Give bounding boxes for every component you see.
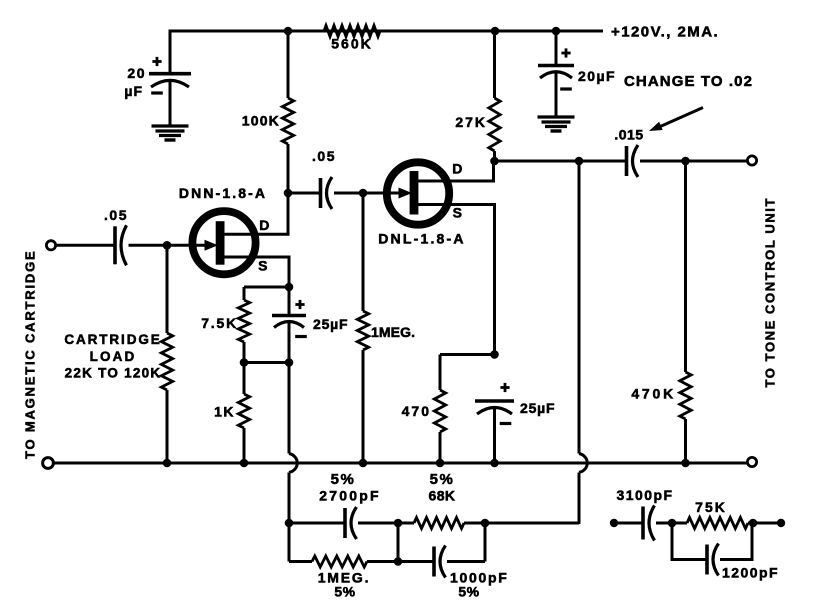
wire S-node to 7.5K (244, 286, 289, 289)
wire 470 vertical (439, 355, 442, 464)
svg-text:CARTRIDGE: CARTRIDGE (64, 332, 161, 347)
wire interstage cap left (288, 192, 321, 195)
svg-text:5%: 5% (334, 584, 355, 600)
label cartridge load (64, 332, 161, 381)
svg-text:CHANGE TO .02: CHANGE TO .02 (624, 73, 753, 90)
wire input right (129, 244, 169, 247)
transistor Q1 channel bar (216, 221, 225, 265)
svg-text:2700pF: 2700pF (319, 488, 380, 504)
label to magnetic cartridge (23, 250, 38, 459)
node junction rail/470 (436, 459, 445, 468)
wire network top-left (289, 522, 345, 525)
ground symbol right (538, 117, 575, 131)
wire top supply rail (170, 30, 603, 33)
wire 25uF-1 hop over ground rail (289, 454, 297, 473)
node junction interstage tap (284, 189, 293, 198)
node junction rail/1K (240, 459, 249, 468)
polarity - 25uF first (295, 335, 307, 338)
svg-text:µF: µF (124, 83, 143, 99)
svg-text:27K: 27K (455, 114, 487, 130)
wire Q2 drain lead (416, 161, 494, 181)
node junction 25uF-1 mid (285, 358, 294, 367)
polarity - 20uF left (151, 91, 163, 94)
wire 25uF-2 bottom (493, 408, 496, 463)
wire interstage cap right (334, 192, 364, 195)
label 25uF second (520, 400, 555, 416)
resistor R 1MEG 5% (312, 556, 367, 567)
svg-text:DNN-1.8-A: DNN-1.8-A (179, 185, 267, 201)
wire network lower-left (289, 560, 312, 563)
svg-text:3100pF: 3100pF (617, 487, 674, 503)
label 1000pF 5% (450, 570, 508, 600)
polarity + 25uF first (295, 300, 304, 309)
label to tone control unit (763, 197, 778, 388)
terminal ground left (43, 458, 54, 469)
capacitor C .05 interstage (321, 177, 333, 209)
wire Q1 gate lead (167, 244, 205, 247)
capacitor C .015 output (627, 145, 639, 177)
svg-text:75K: 75K (695, 499, 727, 515)
resistor R 470 (402, 390, 446, 432)
svg-text:68K: 68K (429, 488, 456, 504)
resistor R 560K (feedback to +120V rail) (324, 26, 380, 52)
label CHANGE TO .02 (624, 73, 753, 90)
node junction 470K top (681, 157, 690, 166)
capacitor C 3100pF (643, 506, 655, 541)
label Q1 pin D (259, 217, 270, 233)
capacitor C 1000pF (434, 546, 446, 578)
capacitor C 25uF second (electrolytic) (475, 401, 514, 414)
wire network B tie (397, 523, 400, 562)
svg-text:.05: .05 (312, 148, 336, 164)
svg-text:DNL-1.8-A: DNL-1.8-A (378, 231, 465, 247)
label 25uF first (313, 316, 348, 332)
wire network top-right (464, 522, 579, 525)
wire 470K vertical (684, 161, 687, 463)
wire eq mid (656, 522, 687, 525)
wire network lower-mid (367, 560, 434, 563)
wire feedback vertical (578, 161, 581, 524)
wire Q2 source lead (416, 205, 495, 356)
node junction network A (285, 519, 294, 528)
wire 1K vertical (243, 363, 246, 464)
label Q1 type (179, 185, 267, 201)
node junction Q2 drain output (490, 157, 499, 166)
svg-text:.015: .015 (614, 127, 643, 143)
svg-text:22K TO 120K: 22K TO 120K (65, 366, 162, 381)
annotation arrow change-to (649, 108, 703, 132)
label 3100pF (617, 487, 674, 503)
svg-text:5%: 5% (458, 584, 479, 600)
wire 25uF-1 stem (288, 287, 291, 316)
node junction eq B (668, 519, 677, 528)
label Q1 pin S (258, 258, 268, 274)
label 20uF right value (578, 68, 616, 84)
polarity + 25uF second (500, 383, 509, 392)
node junction top rail / 20uF left (284, 27, 293, 36)
wire network top-mid (358, 522, 414, 525)
wire network A drop (288, 523, 291, 562)
node junction Q2 gate (359, 189, 368, 198)
resistor R 75K (687, 518, 748, 529)
terminal input (from cartridge) (46, 241, 55, 250)
wire output line right (640, 160, 748, 163)
wire feedback hop over ground rail (579, 454, 587, 473)
resistor R 1K (214, 394, 250, 428)
capacitor C 20uF right (electrolytic) (538, 66, 574, 79)
transistor Q1 DNN-1.8-A body (192, 211, 255, 274)
resistor R 7.5K (201, 300, 249, 342)
label .05 input (104, 207, 128, 223)
svg-text:D: D (259, 217, 270, 233)
wire output line left (495, 160, 627, 163)
resistor R 470K (631, 372, 691, 419)
wire network lower-right (447, 523, 485, 562)
node junction rail/470K (681, 459, 690, 468)
terminal eq right (777, 519, 785, 527)
node junction rail/cartridge-load (163, 459, 172, 468)
ground symbol left (152, 126, 189, 140)
resistor R 68K (414, 518, 464, 529)
node junction 27K top (491, 27, 500, 36)
resistor R 27K (455, 98, 500, 151)
node junction eq C (749, 519, 758, 528)
capacitor C .05 input (115, 225, 127, 265)
wire eq right (748, 522, 781, 525)
svg-text:TO TONE CONTROL UNIT: TO TONE CONTROL UNIT (763, 197, 778, 388)
svg-text:LOAD: LOAD (90, 349, 137, 364)
node junction input / cartridge load (163, 241, 172, 250)
label 20uF left value (124, 65, 146, 99)
svg-text:TO MAGNETIC CARTRIDGE: TO MAGNETIC CARTRIDGE (23, 250, 38, 459)
svg-text:470K: 470K (631, 386, 676, 402)
svg-text:5%: 5% (430, 471, 455, 488)
svg-text:560K: 560K (331, 36, 372, 52)
wire bottom ground rail (54, 462, 748, 465)
svg-text:7.5K: 7.5K (201, 315, 238, 331)
svg-text:+120V., 2MA.: +120V., 2MA. (611, 24, 719, 41)
transistor Q1 gate arrow (205, 240, 219, 251)
wire 20uF-right bottom stem (555, 72, 558, 117)
svg-text:25µF: 25µF (520, 400, 555, 416)
wire Q1 drain lead (222, 193, 288, 234)
label .015 (614, 127, 643, 143)
resistor R cartridge load (161, 333, 172, 390)
polarity + 20uF left (152, 57, 161, 66)
svg-text:D: D (452, 161, 463, 177)
node junction network B2 (394, 557, 403, 566)
capacitor C 20uF left (electrolytic) (149, 74, 191, 87)
terminal eq left (610, 519, 618, 527)
capacitor C 25uF first (electrolytic) (272, 316, 306, 328)
svg-text:S: S (453, 205, 463, 221)
wire 7.5K-1K tie (244, 361, 289, 364)
terminal output (to tone control) (747, 156, 756, 165)
wire eq lower-left (672, 523, 707, 560)
polarity + 20uF right (561, 48, 570, 57)
label 68K (429, 471, 456, 504)
node junction Q1 source (285, 283, 294, 292)
node junction rail/1MEG (359, 459, 368, 468)
svg-text:5%: 5% (331, 471, 356, 488)
wire 1MEG vertical (362, 193, 365, 463)
svg-text:.05: .05 (104, 207, 128, 223)
label +120V supply (611, 24, 719, 41)
svg-text:25µF: 25µF (313, 316, 348, 332)
label 75K (695, 499, 727, 515)
label Q2 type (378, 231, 465, 247)
svg-text:100K: 100K (242, 113, 280, 129)
transistor Q2 channel bar (410, 171, 419, 215)
terminal ground right (747, 457, 756, 466)
node junction network B (394, 519, 403, 528)
label .05 interstage (312, 148, 336, 164)
transistor Q2 gate arrow (399, 188, 413, 199)
wire Q1 source lead (222, 257, 289, 287)
wire 100K branch vertical (287, 30, 290, 235)
resistor R 1MEG gate (357, 311, 415, 350)
wire Q2 gate lead (363, 192, 399, 195)
node junction network C (481, 519, 490, 528)
wire S2-node to 470 (440, 353, 495, 356)
svg-text:S: S (258, 258, 268, 274)
svg-text:20: 20 (127, 65, 146, 81)
wire 7.5K vertical (243, 287, 246, 363)
transistor Q2 DNL-1.8-A body (387, 162, 449, 224)
label 1MEG 5% (318, 570, 371, 600)
capacitor C 2700pF (345, 507, 357, 539)
node junction 20uF right top (552, 27, 561, 36)
resistor R 100K (242, 98, 294, 144)
wire eq left (614, 522, 643, 525)
label Q2 pin S (453, 205, 463, 221)
node junction Q2 source branch (490, 350, 499, 359)
wire 20uF-left top stem (169, 30, 172, 75)
wire 27K vertical (493, 30, 496, 163)
wire 25uF-1 bottom (288, 322, 291, 524)
wire eq lower-right (720, 523, 752, 560)
svg-text:20µF: 20µF (578, 68, 616, 84)
wire input left (55, 244, 115, 247)
wire cartridge-load vertical (166, 245, 169, 463)
node junction feedback takeoff (575, 157, 584, 166)
svg-text:1K: 1K (214, 404, 235, 420)
svg-text:1200pF: 1200pF (722, 565, 779, 581)
svg-text:470: 470 (402, 403, 431, 419)
node junction 7.5K/1K (240, 358, 249, 367)
polarity - 20uF right (560, 87, 572, 90)
wire 20uF-left bottom stem (169, 80, 172, 126)
svg-text:1MEG.: 1MEG. (371, 324, 415, 340)
label 2700pF (319, 471, 380, 504)
polarity - 25uF second (500, 422, 512, 425)
label 1200pF (722, 565, 779, 581)
capacitor C 1200pF (707, 544, 719, 576)
wire 20uF-right top stem (555, 30, 558, 67)
node junction rail/25uF-2 (490, 459, 499, 468)
label Q2 pin D (452, 161, 463, 177)
